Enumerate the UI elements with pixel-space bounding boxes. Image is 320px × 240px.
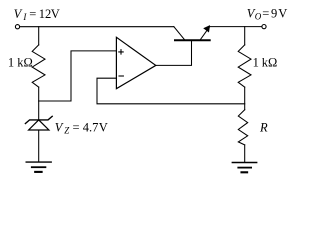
svg-text:1kΩ: 1kΩ bbox=[253, 56, 278, 70]
wire top rail from VI terminal to transistor collector bbox=[20, 26, 174, 28]
node VO output terminal bbox=[262, 25, 266, 29]
wire op-amp inverting input to feedback node bbox=[97, 78, 245, 104]
op-amp minus sign bbox=[119, 75, 123, 77]
wire node A to op-amp + input bbox=[39, 51, 116, 101]
wire R2 bottom through feedback node to resistor R top bbox=[244, 87, 246, 110]
op-amp U1 triangle bbox=[116, 37, 155, 88]
resistor R2 1 kOhm (right) bbox=[238, 45, 251, 87]
wire R bottom to ground bbox=[244, 145, 246, 162]
transistor Q1 collector lead bbox=[174, 27, 184, 40]
zener diode DZ anode triangle bbox=[29, 120, 49, 130]
op-amp + sign bbox=[119, 50, 123, 54]
wire zener anode to ground bbox=[38, 131, 40, 162]
transistor Q1 base bar bbox=[175, 39, 210, 41]
resistor R1 1 kOhm (left) bbox=[32, 45, 45, 87]
zener diode DZ cathode bar with bent tails bbox=[25, 116, 52, 123]
node VI input terminal bbox=[15, 25, 19, 29]
wire emitter to VO terminal bbox=[210, 26, 262, 28]
ground (right) bbox=[232, 162, 256, 164]
svg-text:1kΩ: 1kΩ bbox=[8, 56, 33, 70]
transistor Q1 emitter lead bbox=[201, 27, 210, 40]
transistor Q1 emitter arrow (NPN) bbox=[204, 26, 209, 32]
svg-text:VO=9V: VO=9V bbox=[247, 6, 287, 21]
wire left branch from rail down to resistor R1 top bbox=[38, 27, 40, 45]
resistor R (bottom right) bbox=[238, 110, 247, 145]
wire right branch from rail to resistor R2 top bbox=[244, 27, 246, 45]
wire op-amp output to transistor base bbox=[156, 41, 192, 65]
wire from R1 bottom to zener cathode bbox=[38, 87, 40, 119]
ground (left) bbox=[26, 161, 51, 163]
svg-text:R: R bbox=[259, 121, 268, 135]
